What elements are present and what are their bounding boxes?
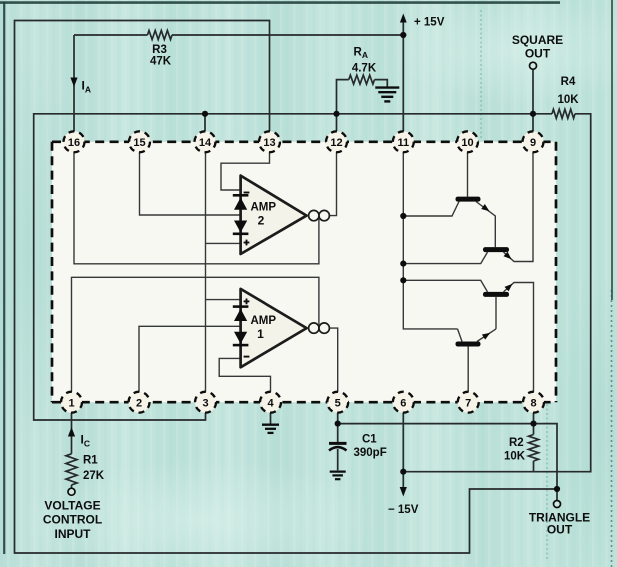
svg-text:2: 2 (258, 214, 265, 228)
svg-text:3: 3 (202, 397, 208, 409)
svg-text:14: 14 (199, 137, 212, 149)
svg-text:VOLTAGE: VOLTAGE (44, 499, 100, 513)
svg-text:390pF: 390pF (354, 447, 387, 459)
svg-text:1: 1 (68, 397, 74, 409)
svg-text:OUT: OUT (525, 47, 551, 61)
svg-text:− 15V: − 15V (388, 504, 419, 516)
svg-text:CONTROL: CONTROL (43, 513, 102, 527)
svg-text:4.7K: 4.7K (352, 63, 377, 75)
svg-text:10: 10 (461, 137, 473, 149)
svg-text:R3: R3 (152, 44, 167, 56)
svg-text:7: 7 (465, 397, 471, 409)
svg-text:C1: C1 (362, 434, 377, 446)
svg-text:4: 4 (267, 397, 274, 409)
svg-text:5: 5 (335, 397, 341, 409)
svg-text:OUT: OUT (547, 523, 573, 537)
svg-text:AMP: AMP (251, 315, 277, 327)
svg-text:1: 1 (257, 327, 264, 341)
svg-text:47K: 47K (150, 56, 172, 68)
svg-text:11: 11 (397, 137, 409, 149)
svg-text:AMP: AMP (251, 202, 277, 214)
svg-text:+ 15V: + 15V (414, 17, 445, 29)
svg-text:R2: R2 (509, 437, 524, 449)
svg-text:12: 12 (330, 137, 342, 149)
svg-text:INPUT: INPUT (55, 527, 92, 541)
svg-text:8: 8 (530, 397, 536, 409)
svg-text:10K: 10K (504, 451, 526, 463)
svg-text:10K: 10K (557, 94, 579, 106)
svg-text:15: 15 (133, 137, 145, 149)
svg-text:2: 2 (136, 397, 142, 409)
svg-text:R4: R4 (561, 76, 576, 88)
svg-text:27K: 27K (83, 470, 105, 482)
svg-text:SQUARE: SQUARE (512, 33, 563, 47)
svg-text:R1: R1 (83, 455, 98, 467)
svg-text:16: 16 (68, 137, 80, 149)
svg-text:13: 13 (263, 137, 275, 149)
svg-text:6: 6 (400, 397, 406, 409)
svg-text:9: 9 (530, 137, 536, 149)
